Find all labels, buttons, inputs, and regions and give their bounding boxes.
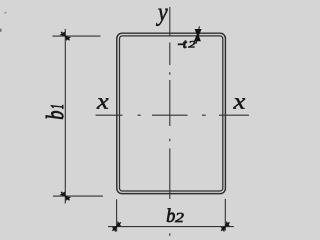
label b1 (rotated) [46,105,63,119]
thickness label t crossbar [178,43,184,45]
speck top-left [5,12,7,14]
b2 tick right [221,221,230,232]
section inner contour [120,36,223,191]
label b2 glyph 2 [175,213,183,222]
speck left edge [0,29,2,32]
b1 tick bottom [60,192,72,201]
dimension b1 line [64,29,66,204]
x axis center line [96,114,250,116]
b2 tick left [112,221,121,232]
label b2 glyph b [167,208,175,222]
b2 extension line right [224,199,226,231]
thickness label 2 glyph [188,41,195,47]
label y [156,9,168,26]
b1 tick top [60,32,72,41]
b2 extension line left [116,199,118,231]
label x left [97,98,109,108]
b1 extension line top [53,35,101,37]
thickness arrowhead lower [194,33,201,42]
section outer contour [117,33,226,193]
label x right [233,98,245,108]
b1 extension line bottom [53,195,103,197]
thickness label t glyph [184,41,187,48]
y axis center line [169,7,171,236]
thickness leader line [196,26,199,43]
dimension b2 line [108,226,234,228]
thickness arrowhead [195,29,202,38]
